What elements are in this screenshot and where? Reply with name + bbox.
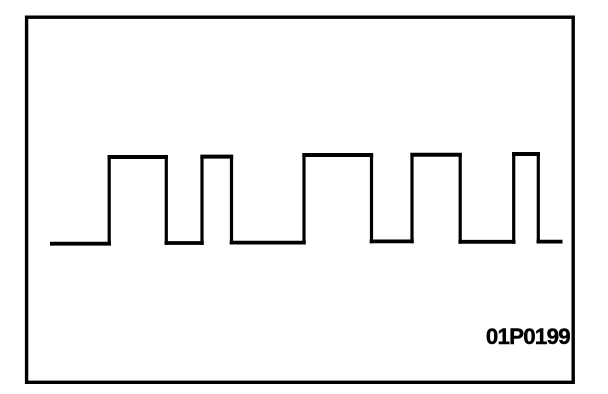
- wire: pulse 3 high level: [302, 153, 373, 157]
- wire: pulse 1 high level: [108, 155, 169, 159]
- wire: pulse 1 falling edge: [165, 157, 168, 245]
- wire: pulse 5 falling edge: [537, 154, 540, 244]
- wire: signal baseline segment 4: [370, 239, 414, 243]
- wire: pulse 2 falling edge: [230, 157, 233, 245]
- wire: signal baseline segment 5: [458, 240, 515, 244]
- wire: pulse 4 falling edge: [459, 155, 462, 244]
- wire: signal baseline segment 1: [50, 242, 111, 246]
- wire: pulse 1 rising edge: [108, 157, 111, 245]
- wire: signal baseline segment 2: [165, 241, 204, 245]
- wire: pulse 3 falling edge: [370, 155, 373, 243]
- wire: pulse 3 rising edge: [302, 155, 305, 245]
- wire: pulse 4 rising edge: [410, 155, 413, 244]
- wire: pulse 2 rising edge: [200, 157, 203, 245]
- wire: pulse 5 high level: [512, 152, 540, 156]
- wire: signal baseline segment 6: [537, 240, 563, 244]
- svg-text:01P0199: 01P0199: [486, 324, 570, 349]
- wire: signal baseline segment 3: [230, 241, 306, 245]
- wire: pulse 5 rising edge: [512, 154, 515, 244]
- wire: pulse 4 high level: [410, 153, 462, 157]
- wire: pulse 2 high level: [200, 155, 233, 159]
